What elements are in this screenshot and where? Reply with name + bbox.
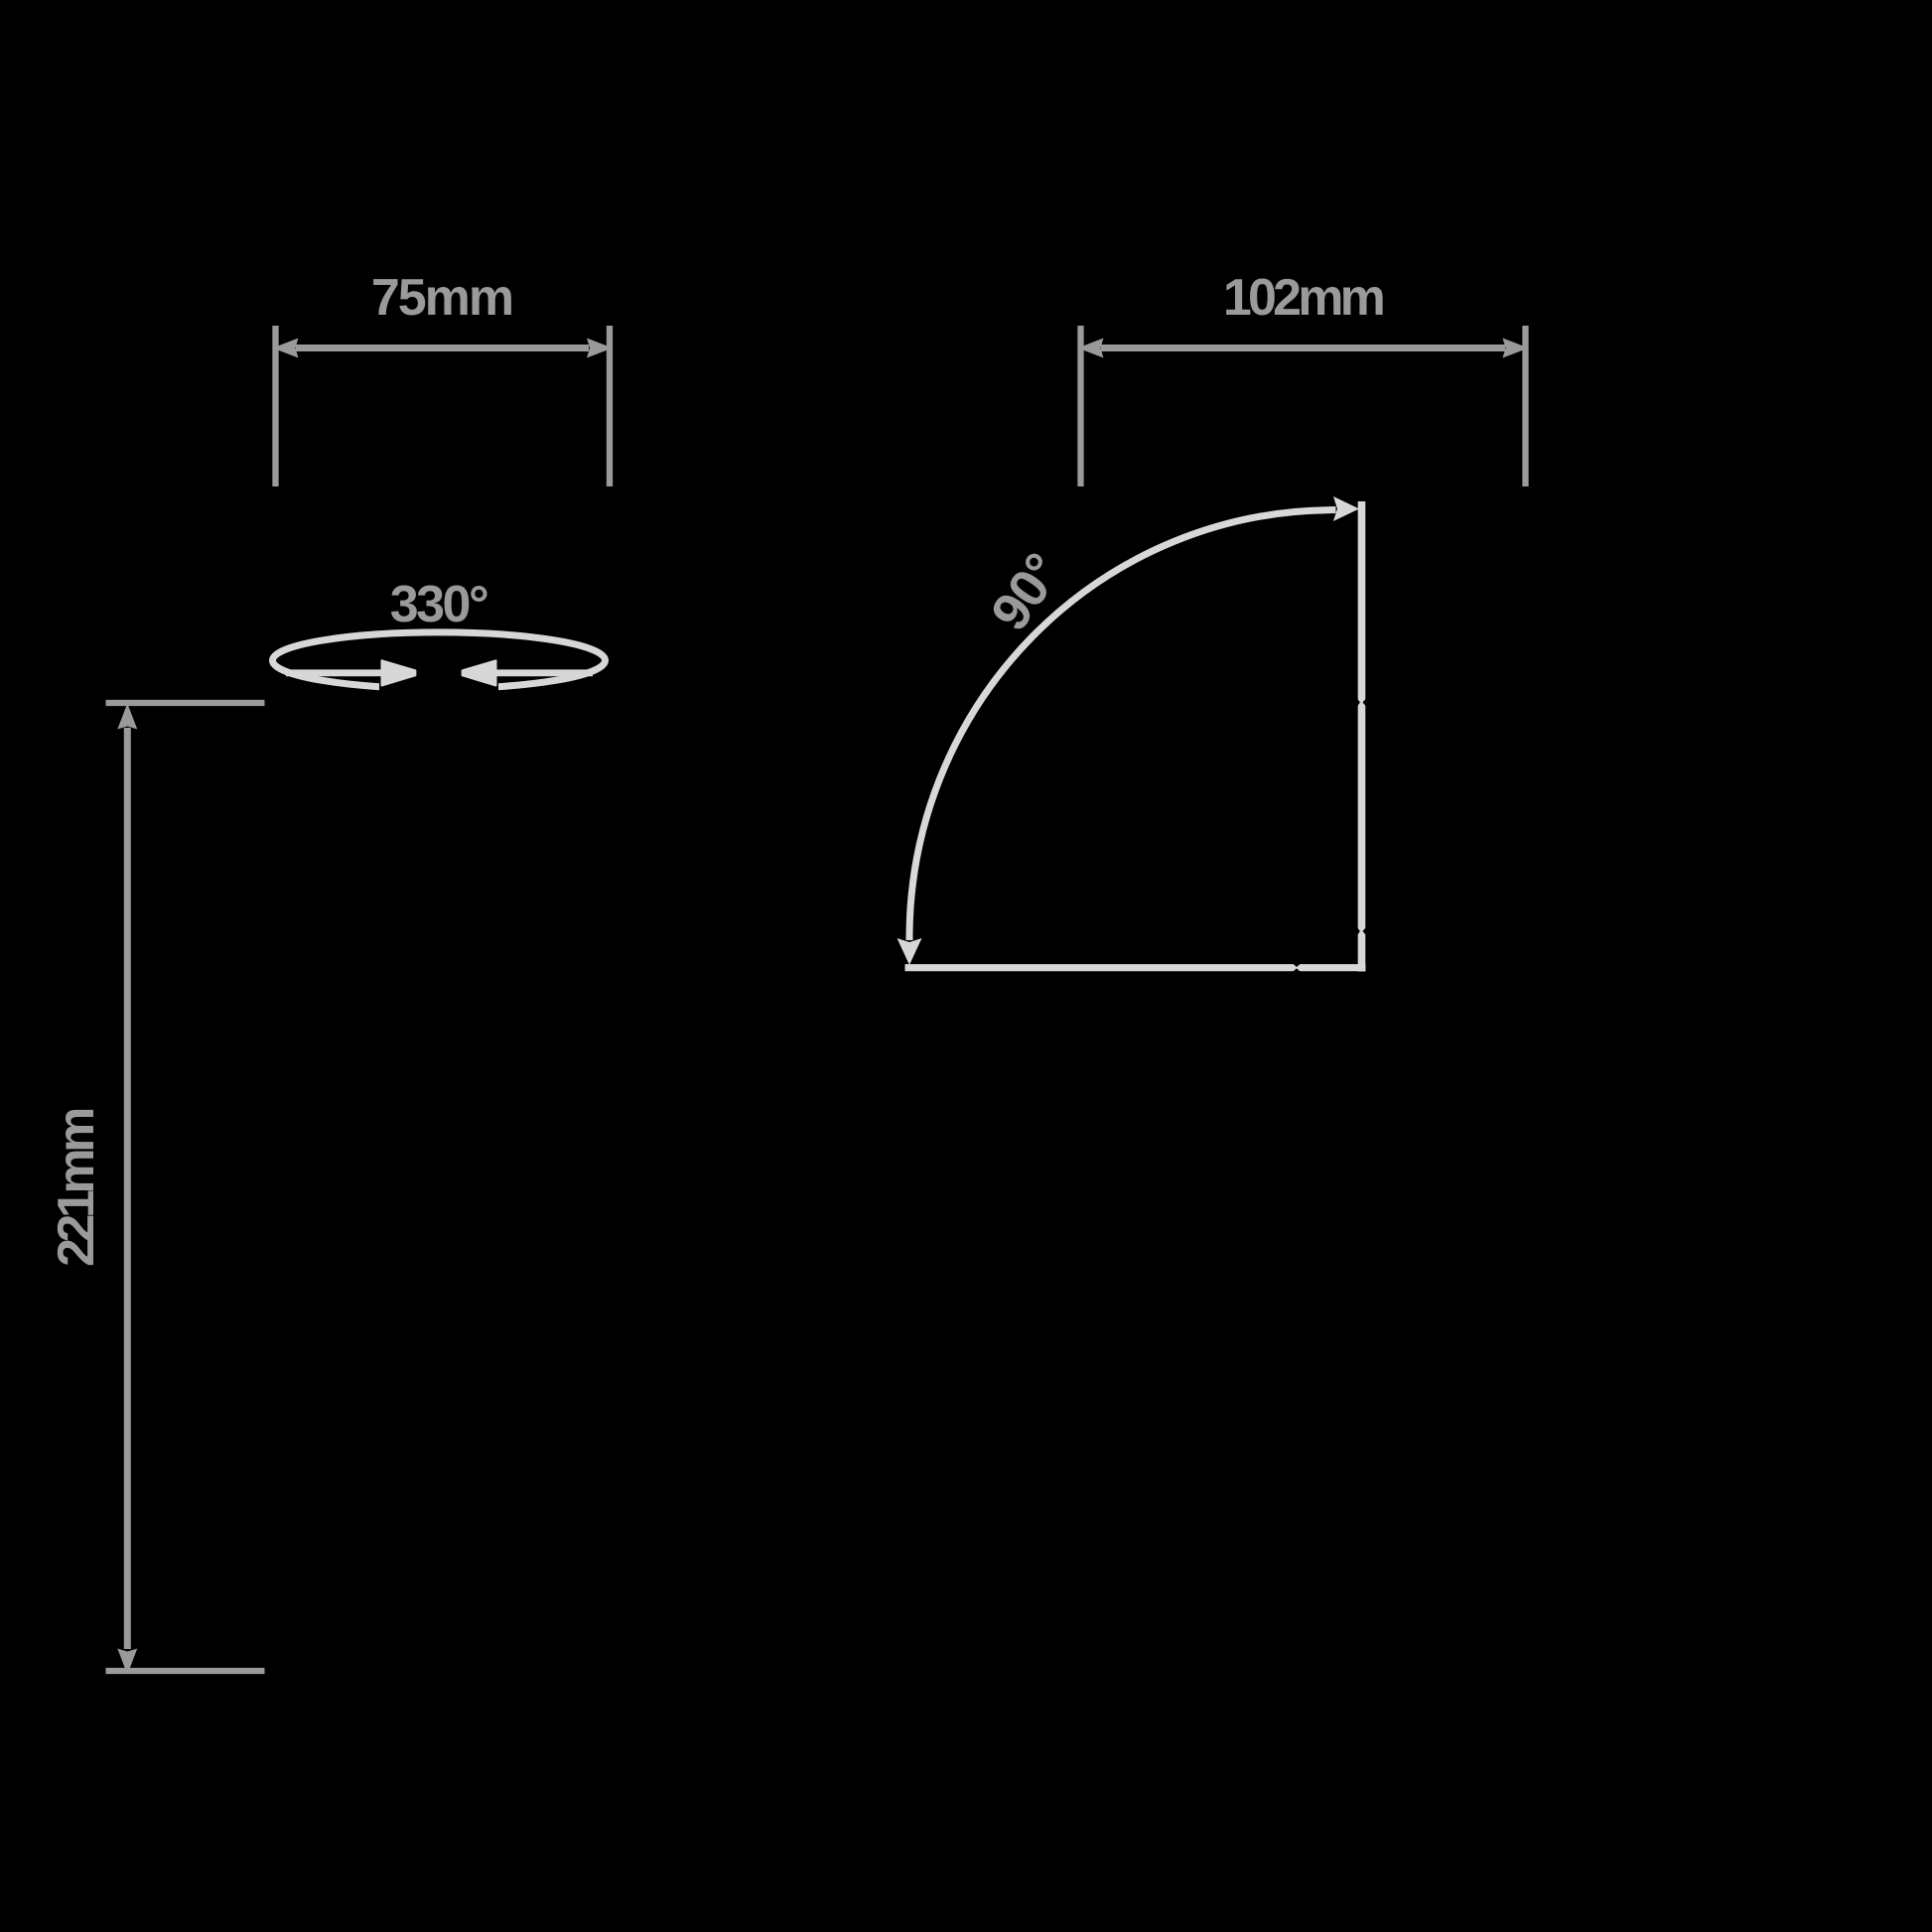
svg-text:330°: 330° [390,576,487,633]
svg-text:75mm: 75mm [371,269,512,327]
svg-text:221mm: 221mm [48,1109,105,1267]
svg-text:102mm: 102mm [1223,269,1384,327]
